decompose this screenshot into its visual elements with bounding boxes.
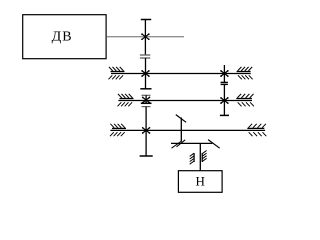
motor box ДВ [23, 15, 106, 59]
bearing shaft II right: top hatches [238, 67, 253, 71]
gear z4 line [223, 84, 225, 115]
svg-text:Н: Н [196, 174, 205, 189]
bevel gear disc on shaft IV [180, 118, 182, 142]
gear z1 top cap [141, 19, 151, 21]
svg-text:ДВ: ДВ [52, 30, 73, 45]
bearing shaft III right: top hatches [237, 94, 253, 98]
bearing shaft IV left: bottom hatches [110, 132, 125, 136]
bearing shaft IV left: bar [112, 127, 126, 129]
mesh z5/z6 bar (z6 top cap, gray) [142, 106, 151, 108]
fixed joint X z3 [220, 70, 229, 77]
gear z5 line [145, 95, 147, 103]
bearing shaft III left: bar [120, 98, 134, 100]
fixed joint X z4 [220, 97, 229, 104]
wire vertical shaft V [199, 143, 201, 170]
gear z6 bottom cap [140, 155, 153, 157]
load box Н [178, 171, 222, 193]
fixed joint X z2 [141, 70, 149, 77]
wire shaft I (motor shaft) [107, 36, 184, 38]
gear z1 line [144, 20, 146, 56]
gear z5 top cap (gray) [142, 94, 151, 96]
bearing shaft IV left: top hatches [110, 124, 125, 128]
bearing vertical shaft: left hatches [190, 153, 194, 164]
gear z6 line [145, 107, 147, 156]
bearing shaft III left: top hatches [118, 94, 133, 98]
gear z3 line [223, 65, 225, 82]
bearing shaft II right: bottom hatches [238, 75, 253, 79]
bearing shaft II right: bar [237, 71, 251, 73]
bearing shaft IV right: top hatches [248, 124, 266, 128]
wire shaft III [118, 100, 252, 102]
bearing shaft III right: bar [236, 98, 252, 100]
bearing shaft III right: bottom hatches [238, 102, 254, 106]
bearing vertical shaft: right hatches [202, 151, 206, 162]
wire shaft II [111, 73, 251, 75]
fixed joint X z5 [142, 97, 151, 104]
mesh z3/z4 lower bar (z4 top cap) [221, 83, 228, 85]
bearing shaft II left: top hatches [109, 67, 124, 71]
mesh z3/z4 upper bar (z3 bottom cap) [221, 81, 228, 83]
mesh z1/z2 upper bar [140, 54, 150, 56]
bearing vertical shaft: right bar [201, 153, 203, 162]
bevel gear right cone edge [208, 140, 220, 149]
wire shaft IV [110, 129, 265, 131]
bevel disc top cone edge [176, 115, 186, 123]
mesh z1/z2 lower bar [140, 57, 150, 59]
bevel gear left cone edge [172, 141, 182, 148]
bearing shaft IV right: bottom hatches [249, 132, 267, 136]
gear z5 bottom cap [141, 102, 152, 104]
fixed joint X z1 [141, 33, 150, 40]
gear z2 bottom cap [140, 88, 151, 90]
bevel disc bottom cone edge [177, 140, 186, 147]
bevel gear on vertical shaft: face bar [171, 142, 212, 144]
gear z4 bottom cap [220, 114, 229, 116]
fixed joint X z6 [142, 127, 151, 134]
bearing shaft IV right: bar [247, 127, 264, 129]
gear z2 line [145, 58, 147, 89]
bearing shaft III left: bottom hatches [118, 102, 133, 106]
bearing shaft II left: bar [111, 71, 125, 73]
bearing vertical shaft: left bar [193, 153, 195, 162]
bearing shaft II left: bottom hatches [109, 75, 124, 79]
